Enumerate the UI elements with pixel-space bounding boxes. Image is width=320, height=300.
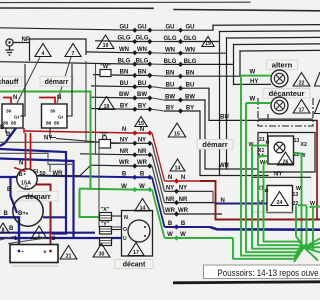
svg-text:WN: WN: [137, 47, 147, 53]
svg-text:14: 14: [140, 205, 146, 211]
wire row BY left page: [91, 104, 152, 112]
svg-text:7: 7: [72, 51, 75, 57]
maroon vertical right edge: [316, 120, 318, 220]
svg-text:O: O: [123, 227, 127, 233]
svg-text:B: B: [7, 187, 12, 193]
maroon N wire right page: [200, 181, 320, 220]
triangle 26: [277, 152, 293, 165]
grey link NY row to N wire: [212, 191, 214, 203]
svg-text:WR: WR: [178, 208, 189, 214]
relay K2: [42, 104, 68, 128]
svg-text:B: B: [4, 211, 9, 217]
svg-text:BU: BU: [186, 83, 195, 89]
svg-text:BY: BY: [186, 105, 194, 111]
small triangle B left edge: [0, 223, 9, 233]
svg-text:14: 14: [175, 165, 181, 171]
triangle 4: [35, 44, 51, 57]
svg-text:19: 19: [104, 104, 110, 110]
svg-text:NY: NY: [120, 138, 128, 144]
wire BLG page link: [152, 63, 164, 65]
svg-text:NY: NY: [138, 138, 146, 144]
svg-text:W: W: [121, 184, 127, 190]
blue wire into relay K1 85: [0, 128, 16, 146]
svg-text:BU: BU: [138, 81, 147, 87]
label altern: [267, 60, 298, 70]
bus BW drop to WR line: [205, 100, 258, 169]
bus BU drop: [209, 88, 317, 120]
triangle 21 left: [60, 246, 77, 260]
svg-text:N: N: [124, 215, 128, 221]
wire B page link: [152, 177, 165, 227]
svg-text:NP: NP: [22, 37, 30, 43]
navy solenoid feed: [43, 216, 66, 218]
svg-text:B+: B+: [18, 211, 26, 217]
svg-text:WR: WR: [119, 160, 130, 166]
svg-text:GU: GU: [120, 24, 129, 30]
wire N to relay K2: [39, 98, 55, 105]
battery shadow: [12, 265, 58, 267]
top-right bus wire 4: [234, 43, 320, 46]
svg-text:décant: décant: [123, 262, 146, 269]
pointer line triangle 7 to relay: [57, 57, 71, 103]
svg-text:WN: WN: [165, 48, 175, 54]
wire vertical mid bus 2: [95, 64, 97, 155]
triangle 7: [65, 44, 81, 57]
svg-text:WR: WR: [165, 208, 176, 214]
wire black upper 153: [0, 153, 72, 164]
partial triangle right edge top: [315, 72, 320, 86]
svg-text:GLG: GLG: [118, 36, 131, 42]
svg-text:26: 26: [283, 159, 289, 165]
wire row GU left page: [0, 24, 152, 32]
warning lamp decanteur: [271, 97, 288, 114]
svg-text:24: 24: [277, 200, 283, 206]
svg-text:W: W: [139, 184, 145, 190]
green wire to decanteur lamp: [246, 102, 271, 104]
svg-text:BN: BN: [138, 70, 147, 76]
W fuse box on BN row: [100, 64, 111, 77]
svg-text:30: 30: [50, 109, 56, 115]
svg-text:15: 15: [174, 131, 180, 137]
svg-text:W: W: [250, 97, 256, 103]
dashed box decanteur: [258, 96, 313, 126]
navy wire to ignition B+: [0, 176, 18, 178]
wire NY from relay K2: [50, 128, 56, 138]
svg-text:NR: NR: [120, 149, 129, 155]
svg-text:NY: NY: [44, 136, 52, 142]
bus corner WN up and drop: [226, 38, 228, 169]
bus corner BN up: [239, 51, 241, 76]
triangle 17 right: [293, 100, 310, 114]
svg-text:B: B: [181, 221, 186, 227]
svg-text:BLG: BLG: [164, 59, 177, 65]
svg-text:WR: WR: [219, 163, 230, 169]
wire N to relay K1: [3, 98, 11, 105]
navy bus thick bottom: [210, 227, 320, 230]
svg-text:BU: BU: [166, 83, 175, 89]
wire row NY left page: [110, 138, 152, 146]
ignition switch: [17, 169, 37, 189]
svg-text:BU: BU: [120, 81, 129, 87]
wire row W right page: [165, 232, 234, 240]
green wire net hub: [233, 76, 320, 262]
svg-text:8: 8: [2, 227, 5, 233]
switch unit 1 body: [268, 136, 294, 164]
NY wire under switch 1: [253, 176, 312, 178]
bus corner GU up: [212, 25, 214, 30]
svg-text:"W": "W": [100, 64, 111, 70]
svg-text:démarr: démarr: [202, 140, 228, 149]
svg-text:BW: BW: [137, 92, 147, 98]
heater unit box: [122, 211, 153, 257]
wire lamp2 to switch1 pin 21: [267, 114, 270, 140]
triangle 15 left: [135, 117, 147, 127]
triangle 19 right: [202, 37, 214, 47]
svg-text:21: 21: [66, 253, 72, 259]
connector Y: [100, 222, 112, 235]
buzzer component D: [99, 132, 111, 148]
wire row NY right page: [165, 186, 214, 194]
wire BN page link: [152, 74, 164, 77]
green wire to alt lamp: [241, 75, 271, 77]
wire GU page link: [152, 29, 164, 31]
svg-text:GU: GU: [138, 24, 147, 30]
svg-text:13: 13: [294, 138, 300, 144]
wire W page link: [152, 190, 165, 238]
triangle 19 left lower: [98, 97, 114, 110]
wire Y to heater box: [112, 229, 122, 231]
wire X to heater box: [112, 215, 122, 217]
svg-text:N: N: [181, 175, 185, 181]
battery: [10, 245, 58, 263]
navy wire to pin 14: [215, 203, 268, 205]
wire row BN left page: [93, 70, 152, 78]
wire row NR left page: [80, 149, 152, 157]
svg-text:BU: BU: [220, 114, 229, 120]
wire row B right page: [165, 221, 211, 229]
svg-text:B: B: [9, 226, 14, 232]
wire row BN right page: [164, 71, 240, 79]
svg-text:4: 4: [42, 51, 45, 57]
switch unit 2 body: [267, 186, 293, 213]
wire WN page link: [152, 52, 164, 54]
connector Z: [100, 238, 112, 246]
bottom border right page: [173, 282, 320, 283]
svg-text:85: 85: [54, 121, 60, 127]
svg-text:W: W: [167, 232, 173, 238]
svg-text:B: B: [19, 172, 23, 178]
wire BY page link: [152, 109, 164, 111]
svg-text:N: N: [140, 127, 144, 133]
svg-text:30: 30: [6, 109, 12, 115]
green supply wire top: [0, 92, 91, 190]
shadow under switch 2: [252, 211, 296, 213]
svg-text:21: 21: [259, 137, 265, 143]
wire row W left page: [79, 184, 152, 192]
red wire ignition to battery +: [35, 185, 51, 252]
partial triangle right edge mid: [315, 100, 320, 114]
svg-text:NR: NR: [179, 197, 188, 203]
svg-text:GI: GI: [58, 115, 64, 121]
svg-text:altern: altern: [272, 61, 293, 70]
svg-text:19: 19: [103, 43, 109, 49]
svg-text:BY: BY: [138, 104, 146, 110]
wire horiz left 142: [0, 141, 99, 143]
wire GI relay K2 up: [66, 64, 72, 116]
triangle 14 left: [135, 199, 151, 212]
svg-text:décanteur: décanteur: [269, 89, 305, 98]
svg-text:86: 86: [46, 121, 52, 127]
svg-text:GI: GI: [33, 169, 39, 175]
lamp enclosure bottom line: [258, 118, 313, 120]
wire NR page link: [152, 155, 165, 203]
starter motor: [13, 196, 43, 226]
svg-text:+: +: [43, 249, 47, 256]
green wiring switch 1: [252, 145, 268, 147]
svg-text:-: -: [22, 249, 24, 256]
svg-text:30: 30: [99, 251, 105, 257]
svg-text:B: B: [0, 125, 5, 131]
svg-text:GLG: GLG: [184, 36, 197, 42]
label demarr right: [197, 140, 233, 150]
svg-text:N: N: [19, 161, 23, 167]
svg-text:N: N: [221, 198, 225, 204]
svg-text:B: B: [122, 172, 127, 178]
top border line B right page: [174, 10, 320, 11]
wire row BLG left page: [0, 58, 152, 66]
red wire down to ignition: [25, 133, 27, 170]
triangle 15 right: [168, 123, 185, 137]
triangle 22: [293, 73, 310, 87]
svg-text:NY: NY: [274, 172, 282, 178]
connector X: [100, 207, 112, 221]
svg-text:WN: WN: [119, 47, 129, 53]
svg-text:15: 15: [138, 121, 144, 127]
svg-text:BN: BN: [186, 71, 195, 77]
wire row WN left page: [86, 47, 152, 55]
svg-text:GU: GU: [166, 25, 175, 31]
top border line B left page: [0, 7, 153, 9]
bus BY drop: [200, 111, 268, 176]
bracket over relay group: [30, 39, 87, 61]
pointer line triangle 4 to relay: [17, 57, 40, 103]
wire BW page link: [152, 98, 164, 100]
svg-text:NY: NY: [179, 186, 187, 192]
switch 1 lamp: [274, 142, 285, 153]
wire GLG page link: [152, 41, 164, 43]
wire row WN right page: [164, 48, 227, 56]
wire vertical mid bus 1: [85, 61, 87, 142]
warning lamp alternator: [271, 70, 288, 87]
svg-text:B: B: [140, 172, 145, 178]
navy wire to glow comps: [0, 237, 122, 239]
wire row B left page: [38, 172, 152, 180]
svg-text:chauff: chauff: [0, 79, 19, 86]
svg-text:W: W: [180, 232, 186, 238]
wire BU page link: [152, 87, 164, 89]
triangle 14 right: [170, 159, 185, 171]
svg-text:GLG: GLG: [136, 36, 149, 42]
wire row GU right page: [164, 25, 213, 33]
bus corner GLG up and drop: [219, 32, 221, 176]
svg-text:BW: BW: [165, 94, 175, 100]
svg-text:BY: BY: [120, 104, 128, 110]
svg-text:B: B: [168, 221, 173, 227]
wire WR page link: [152, 166, 165, 214]
svg-text:"D": "D": [100, 132, 109, 138]
ground terminal circle NP: [6, 39, 30, 55]
svg-text:BN: BN: [120, 70, 129, 76]
wire row N left page: [24, 127, 152, 135]
triangle 1: [31, 226, 47, 239]
pointer diagonal to battery: [8, 238, 46, 244]
top-right bus wire 3: [227, 36, 320, 39]
svg-text:démarr: démarr: [45, 79, 69, 86]
svg-text:WN: WN: [185, 48, 195, 54]
svg-text:BLG: BLG: [184, 59, 197, 65]
info box poussoirs: [204, 265, 320, 279]
wire HY to alt lamp: [234, 83, 272, 85]
label decanteur: [263, 89, 310, 99]
wire row BU left page: [91, 81, 152, 89]
label decant: [115, 260, 153, 269]
wire row BW left page: [91, 92, 152, 100]
svg-text:22: 22: [299, 80, 305, 86]
svg-text:19: 19: [205, 41, 211, 47]
svg-text:BLG: BLG: [136, 58, 149, 64]
svg-text:BW: BW: [185, 94, 195, 100]
wire row BLG right page: [164, 59, 234, 67]
wire N page link: [152, 133, 165, 181]
svg-text:WR: WR: [137, 160, 148, 166]
top-right bus wire 5: [240, 49, 320, 52]
svg-text:13: 13: [293, 192, 299, 198]
label chauff: [0, 77, 22, 87]
wire GI relay K1 up: [20, 64, 25, 116]
navy harness wire 1: [0, 149, 66, 234]
svg-text:C: C: [25, 186, 29, 192]
svg-text:85: 85: [11, 121, 17, 127]
switch unit 1 outer box: [258, 133, 315, 173]
svg-text:BY: BY: [166, 105, 174, 111]
svg-text:NY: NY: [166, 186, 174, 192]
top-right bus wire 2: [220, 30, 320, 33]
wire NY page link: [152, 143, 165, 191]
svg-text:GI: GI: [14, 115, 20, 121]
triangle 30: [93, 244, 110, 258]
top border line A: [0, 1, 250, 3]
svg-text:NR: NR: [166, 197, 175, 203]
svg-text:GU: GU: [186, 25, 195, 31]
relay K1 pin 86 stub: [5, 128, 7, 133]
triangle 24: [271, 192, 288, 206]
black vertical near X comps: [99, 142, 121, 227]
svg-text:N: N: [57, 95, 61, 101]
wire row NR right page: [165, 197, 216, 205]
svg-text:GLG: GLG: [164, 36, 177, 42]
navy harness wire 2: [0, 159, 74, 238]
svg-text:17: 17: [133, 250, 139, 256]
svg-text:1: 1: [38, 233, 41, 239]
svg-text:NR: NR: [138, 149, 147, 155]
navy wire battery feed: [0, 217, 19, 251]
svg-text:X2: X2: [301, 142, 307, 148]
wire row GLG right page: [164, 36, 220, 44]
svg-text:BW: BW: [119, 92, 129, 98]
top-right bus wire 1: [213, 24, 320, 27]
svg-text:N: N: [13, 95, 17, 101]
wire row N right page: [165, 175, 216, 183]
label demarr2: [18, 192, 58, 202]
svg-text:N: N: [122, 127, 126, 133]
svg-text:B: B: [6, 132, 11, 138]
switch 1 pins: [249, 137, 307, 166]
wire row BU right page: [164, 83, 209, 91]
bus corner BLG up, HY drop: [233, 45, 235, 85]
wire row BW right page: [164, 94, 205, 102]
svg-text:N: N: [168, 175, 172, 181]
svg-text:U: U: [123, 236, 127, 242]
switch 2 pins: [258, 186, 316, 208]
svg-text:Poussoirs: 14-13 repos ouve: Poussoirs: 14-13 repos ouve: [218, 267, 319, 278]
svg-text:BLG: BLG: [118, 58, 131, 64]
wire 50 WR to right: [37, 166, 90, 176]
wire row WR left page: [90, 160, 152, 168]
label demarr1: [40, 77, 73, 87]
red N row feed from relay: [23, 128, 25, 133]
green wire to preheat: [80, 190, 99, 217]
wire row GLG left page: [95, 36, 152, 44]
svg-text:BN: BN: [166, 71, 175, 77]
relay K1: [2, 104, 23, 128]
wire row BY right page: [164, 105, 200, 113]
svg-text:17: 17: [299, 107, 305, 113]
triangle 19 left: [97, 35, 114, 49]
wire row WR right page: [165, 208, 223, 216]
triangle 17 in heater box: [128, 243, 144, 256]
